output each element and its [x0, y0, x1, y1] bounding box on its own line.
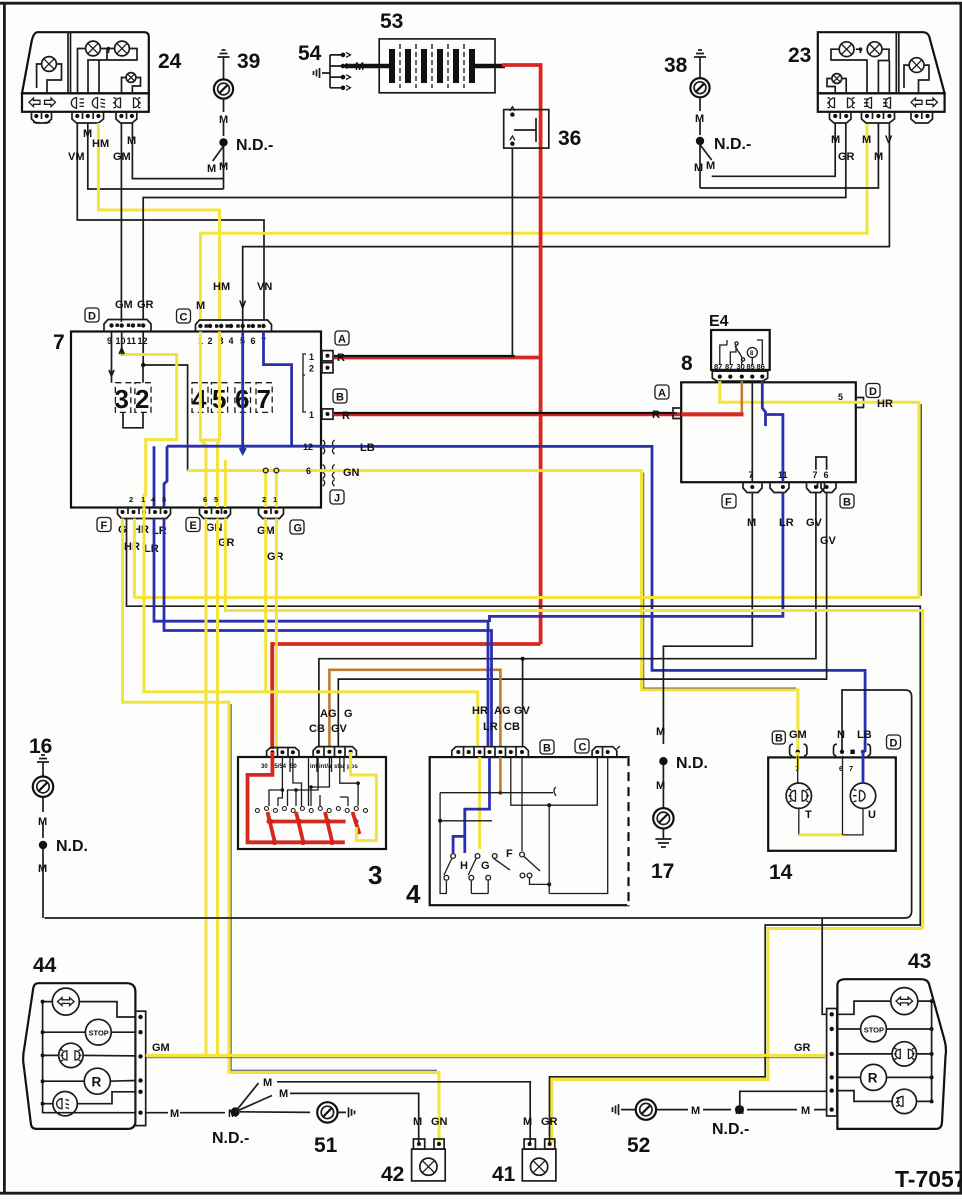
svg-text:LR: LR — [483, 721, 498, 733]
lamp bulb 23-3 small — [832, 74, 842, 84]
red wire battery to fuse 36 and down — [502, 65, 541, 644]
connector F bottom — [118, 508, 171, 519]
svg-text:HR: HR — [472, 705, 488, 717]
beam symbols 23 — [864, 98, 872, 109]
wire red down to ignition 3 — [272, 644, 540, 749]
svg-text:51: 51 — [314, 1134, 338, 1157]
svg-text:B: B — [775, 733, 783, 745]
ignition switch 3 — [238, 747, 386, 849]
svg-text:M: M — [83, 128, 92, 140]
yellow G-GR to ignition 3 — [275, 519, 278, 750]
long yellow 610 line — [225, 519, 922, 929]
connector D on box 7 — [104, 320, 151, 332]
svg-text:GN: GN — [343, 467, 360, 479]
svg-text:M: M — [170, 1108, 179, 1120]
svg-text:7: 7 — [749, 470, 754, 480]
svg-text:VM: VM — [68, 151, 85, 163]
svg-text:7: 7 — [849, 764, 853, 773]
svg-text:GM: GM — [113, 151, 131, 163]
box7 interior: yellow from pin10 — [122, 350, 177, 507]
wire LR blue box8 to switch 4 — [490, 493, 783, 623]
wire M 23 left to ground 38 — [712, 123, 836, 176]
turn lamp 44 — [52, 988, 79, 1015]
high/low symbol — [92, 98, 105, 109]
wire GM 44 — [146, 1054, 206, 1057]
connector tabs under 23 — [830, 112, 852, 123]
pair turn to lamp 41 — [550, 925, 921, 1143]
yellow F-G down and over — [123, 519, 440, 1144]
svg-text:D: D — [88, 311, 96, 323]
svg-text:D: D — [890, 738, 898, 750]
wire yellow long C1 to unit 23 — [200, 123, 867, 320]
wire M 52 to 43 — [656, 1109, 826, 1111]
svg-text:GM: GM — [152, 1042, 170, 1054]
svg-text:N.D.-: N.D.- — [236, 137, 273, 154]
svg-text:F: F — [101, 520, 108, 532]
yellow E-GR long down to lamp 42 — [216, 519, 219, 1056]
svg-text:GR: GR — [794, 1042, 811, 1054]
svg-text:M: M — [694, 162, 703, 174]
box8 interior: red continuation to pin30 — [681, 412, 743, 416]
main connector of 4 — [452, 747, 529, 757]
license lamp 42 — [412, 1116, 448, 1181]
ground 17 — [651, 726, 708, 883]
svg-text:HM: HM — [213, 281, 230, 293]
svg-text:2: 2 — [262, 495, 266, 504]
connector strip 43 — [827, 1009, 837, 1117]
D connector right — [856, 398, 864, 408]
box7 interior: pin9 to fuse3 — [109, 332, 114, 383]
box8 interior: black 85 to F pin 7 — [751, 381, 753, 482]
STOP lamp 44 — [85, 1019, 111, 1045]
svg-text:5: 5 — [214, 495, 218, 504]
svg-text:F: F — [506, 848, 513, 860]
svg-text:G: G — [294, 523, 303, 535]
box7 interior: yellow GN line with G pins — [188, 469, 321, 472]
headlamp unit 23 — [818, 32, 945, 123]
svg-text:R: R — [652, 409, 660, 421]
wire HR yellow box8 D to long run — [134, 402, 919, 597]
svg-text:N.D.-: N.D.- — [712, 1121, 749, 1138]
switch contacts H G F — [444, 852, 532, 880]
svg-text:38: 38 — [664, 54, 688, 77]
svg-text:C: C — [180, 312, 188, 324]
connector 54 — [298, 42, 351, 90]
svg-text:41: 41 — [492, 1163, 516, 1186]
svg-text:R: R — [868, 1071, 878, 1086]
ground 52 — [613, 1099, 657, 1157]
T lamp — [796, 752, 799, 770]
lamp bulb 24-3 — [115, 41, 130, 56]
fuse 6 — [235, 383, 251, 413]
svg-text:M: M — [38, 816, 47, 828]
lamp bulb 24-2 — [86, 41, 101, 56]
svg-text:T: T — [805, 809, 812, 821]
svg-text:87: 87 — [725, 362, 733, 371]
svg-text:VN: VN — [257, 281, 272, 293]
svg-text:B: B — [843, 497, 851, 509]
connector G bottom — [259, 508, 284, 519]
svg-text:6: 6 — [203, 495, 207, 504]
svg-text:V: V — [885, 134, 893, 146]
svg-text:G: G — [481, 860, 490, 872]
svg-text:42: 42 — [381, 1163, 404, 1186]
box7 right side: A pins — [322, 351, 333, 361]
svg-text:N.D.: N.D. — [56, 838, 88, 855]
svg-text:N.D.: N.D. — [676, 755, 708, 772]
wire HR vertical from box7 F — [133, 519, 136, 598]
wire M 24 mid pin to ground 39 — [88, 123, 224, 189]
box7 right side: B pin — [322, 409, 333, 419]
B connector bottom — [807, 482, 825, 492]
svg-text:44: 44 — [33, 954, 57, 977]
light switch 4 — [430, 746, 629, 905]
lamp bulb 23-1 — [839, 42, 854, 57]
instrument lamps 14 — [768, 729, 900, 851]
svg-text:M: M — [207, 163, 216, 175]
black wire 36 down to box7 A — [511, 148, 513, 356]
blue B from box7 F to switch 4 — [164, 519, 492, 747]
wire B red/black box7 to box8 A — [334, 412, 744, 416]
svg-text:16: 16 — [29, 735, 52, 758]
svg-text:5: 5 — [838, 392, 843, 402]
connector strip 44 — [135, 1011, 145, 1125]
fuse 2 — [135, 383, 151, 413]
svg-text:M: M — [874, 151, 883, 163]
svg-text:M: M — [695, 113, 704, 125]
svg-text:E4: E4 — [709, 313, 729, 330]
box8 interior: brown 30 down to red — [740, 381, 743, 413]
svg-text:43: 43 — [908, 950, 931, 973]
svg-text:6: 6 — [251, 336, 256, 346]
svg-text:R: R — [337, 352, 345, 364]
svg-text:GV: GV — [806, 517, 823, 529]
svg-text:M: M — [127, 135, 136, 147]
box7 interior: yellow C1 C3 to E pins — [200, 332, 219, 441]
svg-text:LB: LB — [360, 442, 375, 454]
svg-text:N.D.-: N.D.- — [714, 136, 751, 153]
svg-text:4: 4 — [406, 879, 421, 909]
left connector of 3 — [267, 748, 299, 758]
svg-text:N.D.-: N.D.- — [212, 1130, 249, 1147]
svg-text:C: C — [579, 742, 587, 754]
svg-text:H: H — [460, 860, 468, 872]
C connector of 4 — [592, 747, 617, 757]
wire M 24 right pin to ground 39 — [132, 123, 223, 179]
svg-text:M: M — [691, 1105, 700, 1117]
wire M to lamp 42 — [290, 1093, 419, 1143]
fuse 3 — [115, 383, 130, 413]
svg-text:HR: HR — [877, 398, 893, 410]
svg-text:12: 12 — [303, 442, 313, 452]
wire LB blue box7 to comp 14 — [321, 446, 865, 752]
svg-text:2: 2 — [309, 364, 314, 374]
park lights symbol DD 23 — [827, 98, 855, 109]
tail lamp 43 — [892, 1042, 916, 1066]
svg-text:A: A — [658, 388, 666, 400]
svg-text:7: 7 — [53, 331, 65, 354]
svg-text:V: V — [239, 299, 247, 311]
fuse 4 — [192, 383, 208, 413]
left bus 44 — [43, 1002, 136, 1113]
wire M to lamp 41 — [277, 1082, 530, 1143]
C label — [177, 309, 191, 323]
box7 interior: pin12 black to fuse2 top and GN junction — [143, 332, 187, 471]
A connector left — [673, 408, 681, 419]
wire V long C5 to unit 23 — [243, 123, 890, 331]
ground 51 — [314, 1102, 355, 1157]
rear lamp unit 43 — [827, 979, 946, 1129]
contact circles row — [255, 807, 367, 813]
F connector bottom — [743, 482, 762, 492]
svg-text:6: 6 — [306, 466, 311, 476]
wire VM from 24 to C7 — [77, 123, 264, 320]
tail lamp 44 — [59, 1043, 83, 1067]
svg-text:F: F — [725, 497, 732, 509]
svg-text:AG: AG — [320, 708, 337, 720]
lamp bulb 24-4 small — [126, 73, 136, 83]
svg-text:LB: LB — [857, 729, 872, 741]
svg-text:8: 8 — [681, 352, 693, 375]
ground 16 — [29, 735, 88, 918]
svg-text:int: int — [310, 764, 317, 770]
U lamp — [850, 783, 875, 808]
wire GM from 24 to D10 — [120, 123, 122, 322]
svg-text:M: M — [523, 1116, 532, 1128]
svg-text:3: 3 — [115, 384, 129, 414]
svg-text:14: 14 — [769, 861, 793, 884]
svg-text:1: 1 — [309, 352, 314, 362]
svg-text:B: B — [336, 392, 344, 404]
ground symbol 54 — [314, 68, 331, 78]
right bus 43 — [931, 1001, 933, 1101]
svg-text:1: 1 — [141, 495, 145, 504]
wire M 23 mid to ground 38 — [700, 123, 878, 188]
relay E4 — [709, 313, 770, 381]
svg-text:A: A — [338, 334, 346, 346]
svg-text:G: G — [344, 708, 353, 720]
svg-text:R: R — [92, 1075, 102, 1090]
svg-text:GM: GM — [789, 729, 807, 741]
svg-text:GN: GN — [206, 522, 223, 534]
svg-text:E: E — [190, 520, 197, 532]
svg-text:GV: GV — [331, 723, 348, 735]
wire M 44 to ND 51 — [146, 1111, 310, 1114]
svg-text:1: 1 — [309, 410, 314, 420]
fog lamp 43 — [892, 1089, 916, 1113]
unit 23 internal wiring — [827, 49, 929, 93]
svg-text:86: 86 — [757, 362, 765, 371]
svg-text:36: 36 — [558, 127, 581, 150]
svg-text:M: M — [355, 61, 364, 73]
svg-text:11: 11 — [127, 336, 137, 346]
svg-text:39: 39 — [237, 50, 260, 73]
D label — [85, 308, 99, 322]
svg-text:M: M — [196, 300, 205, 312]
STOP lamp 43 — [861, 1016, 887, 1042]
svg-text:1: 1 — [273, 495, 277, 504]
svg-text:M: M — [656, 726, 665, 738]
fuse 5 — [211, 383, 227, 413]
svg-text:AG: AG — [494, 705, 511, 717]
svg-text:7: 7 — [257, 384, 271, 414]
wire AG orange comp3 to comp4 — [329, 670, 500, 747]
svg-text:52: 52 — [627, 1134, 650, 1157]
svg-text:M: M — [801, 1105, 810, 1117]
svg-text:M: M — [862, 134, 871, 146]
svg-text:J: J — [334, 493, 340, 505]
reverse lamp 44 — [84, 1068, 110, 1094]
svg-text:5: 5 — [162, 495, 166, 504]
svg-text:30: 30 — [737, 362, 745, 371]
blue A from box7 F to switch 4 — [154, 519, 488, 747]
svg-text:4: 4 — [229, 336, 234, 346]
svg-text:85: 85 — [747, 362, 755, 371]
yellow HR2 from box7 F to switch 4 — [144, 507, 478, 747]
svg-text:2: 2 — [208, 336, 213, 346]
fuse box 7 — [53, 308, 349, 535]
svg-text:GN: GN — [431, 1116, 448, 1128]
strip symbols: turn arrows — [29, 98, 40, 107]
svg-text:CB: CB — [504, 721, 520, 733]
svg-text:7: 7 — [813, 470, 818, 480]
svg-text:LR: LR — [144, 543, 159, 555]
svg-text:3: 3 — [368, 860, 382, 890]
low beam symbol — [71, 98, 84, 109]
svg-text:T-7057: T-7057 — [895, 1166, 962, 1192]
headlamp unit 24 — [22, 32, 149, 123]
long black 606 line — [127, 519, 921, 927]
svg-text:pos: pos — [347, 764, 358, 770]
rear lamp unit 44 — [23, 983, 146, 1129]
wire GN yellow box7 to comp 14 — [321, 471, 798, 752]
wire GV2 black box8 B6 to switch 3 — [338, 493, 826, 748]
park lights symbol DD — [113, 98, 141, 109]
D connector of 14 — [834, 744, 871, 756]
yellow E-GN long down — [205, 519, 208, 1056]
wire GR long from D12 to unit 23 — [143, 123, 846, 320]
svg-text:10: 10 — [116, 336, 126, 346]
ND node 51 — [231, 1107, 240, 1116]
box8 interior: yellow 87 to D5 — [720, 381, 837, 402]
svg-text:2: 2 — [129, 495, 133, 504]
wire GV1 black box8 B7 to switch 3/4 — [319, 493, 816, 748]
svg-text:STOP: STOP — [864, 1025, 884, 1034]
wire HM yellow from 24 to C3 — [98, 123, 219, 320]
fog lamp 44 — [53, 1092, 77, 1116]
svg-text:R: R — [342, 410, 350, 422]
svg-text:M: M — [413, 1116, 422, 1128]
B connector of 14 — [790, 744, 807, 756]
svg-text:GR: GR — [137, 299, 154, 311]
yellow bottom bus 44 to 43 — [146, 1054, 827, 1057]
J label — [330, 490, 344, 504]
lamp bulb 23-4 right — [909, 58, 924, 73]
wire M black from box8 F to ground 17 — [663, 493, 752, 745]
box8 interior: blue 86 to LR pin 11 — [762, 381, 783, 482]
red interior of 3 — [248, 752, 345, 842]
svg-text:M: M — [706, 160, 715, 172]
svg-text:30: 30 — [261, 764, 268, 770]
connector E bottom — [200, 508, 231, 519]
lamp bulb 23-2 — [867, 42, 882, 57]
svg-text:LR: LR — [779, 517, 794, 529]
turn lamp 43 — [891, 988, 918, 1015]
svg-text:B: B — [543, 743, 551, 755]
svg-text:M: M — [219, 114, 228, 126]
svg-text:54: 54 — [298, 42, 322, 65]
svg-text:GR: GR — [838, 151, 855, 163]
box7 interior: blue bus — [243, 332, 292, 447]
svg-text:GV: GV — [514, 705, 531, 717]
svg-text:6: 6 — [824, 470, 829, 480]
right connector of 3 — [313, 747, 356, 757]
svg-text:11: 11 — [778, 470, 788, 480]
svg-text:2: 2 — [135, 384, 149, 414]
svg-text:24: 24 — [158, 50, 182, 73]
svg-text:87: 87 — [714, 362, 722, 371]
svg-text:D: D — [869, 386, 877, 398]
svg-text:23: 23 — [788, 44, 811, 67]
svg-text:N: N — [837, 729, 845, 741]
interior of 4 — [478, 757, 481, 849]
svg-text:HM: HM — [92, 138, 109, 150]
turn arrows 23 — [911, 98, 922, 107]
box 8 — [652, 381, 880, 508]
svg-text:M: M — [747, 517, 756, 529]
relay connector strip — [712, 371, 767, 381]
unit 24 internal wiring — [78, 49, 141, 94]
svg-text:GR: GR — [541, 1116, 558, 1128]
black interior of 3 — [269, 757, 358, 806]
svg-text:CB: CB — [309, 723, 325, 735]
lamp bulb 24-1 — [42, 57, 57, 72]
fuse 7 — [256, 383, 272, 413]
svg-text:STOP: STOP — [89, 1029, 109, 1038]
license lamp 41 — [522, 1116, 557, 1181]
relay internals — [720, 340, 763, 365]
svg-text:GV: GV — [820, 535, 837, 547]
ground loop 14 to 16 — [45, 690, 912, 918]
svg-text:M: M — [263, 1077, 272, 1089]
yellow G-GM merge — [264, 519, 267, 692]
svg-text:M: M — [279, 1088, 288, 1100]
connector tabs under 24 — [32, 112, 52, 123]
reverse lamp 43 — [861, 1064, 887, 1090]
svg-text:M: M — [831, 134, 840, 146]
yellow interior of 3 — [351, 752, 377, 841]
svg-text:53: 53 — [380, 10, 403, 33]
ground 38 — [690, 50, 751, 188]
svg-text:GM: GM — [115, 299, 133, 311]
connector C on box 7 — [196, 320, 272, 332]
wire A red/black box7 to fuse 36 — [334, 356, 542, 360]
box8 interior: B bridge pins 7-6 — [816, 457, 827, 470]
battery 53 — [345, 39, 505, 93]
ground 39 — [207, 50, 273, 189]
svg-text:17: 17 — [651, 860, 674, 883]
svg-text:50: 50 — [290, 764, 297, 770]
connector 36 — [504, 107, 549, 148]
svg-text:U: U — [868, 809, 876, 821]
